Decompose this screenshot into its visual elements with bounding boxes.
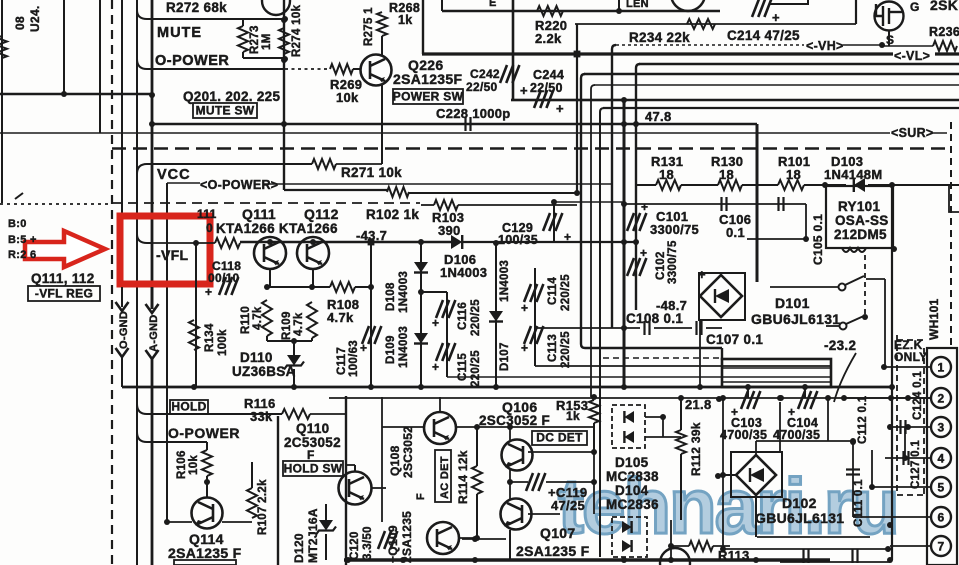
node x285/y59 — [282, 56, 288, 62]
svg-text:+: + — [520, 83, 528, 98]
svg-text:+: + — [205, 285, 212, 299]
node x624/y560 — [621, 557, 627, 563]
diode D106 — [451, 235, 462, 249]
wire vertical x577 R234 — [576, 24, 578, 193]
wire dashed vertical x112 — [111, 0, 113, 565]
wire corner x594/y85 — [591, 85, 595, 397]
wire Q111 down — [269, 269, 271, 287]
node x756/y560 — [753, 557, 759, 563]
node x496/y387 — [493, 384, 499, 390]
node x828/y398 — [825, 395, 831, 401]
wire dotted y203 — [0, 203, 110, 205]
resistor R269 — [330, 64, 353, 74]
svg-text:10k: 10k — [336, 90, 359, 105]
svg-text:D108: D108 — [385, 282, 397, 311]
capacitor bottom right b — [853, 549, 858, 563]
node x780/y398 — [777, 395, 783, 401]
node x577/y193 — [574, 190, 580, 196]
wire horizontal y124 main — [152, 123, 757, 126]
wire Q106 base right — [528, 451, 594, 453]
node x663/y417 — [660, 414, 666, 420]
svg-text:2SK: 2SK — [930, 0, 958, 13]
svg-text:22/50: 22/50 — [466, 80, 498, 94]
label POWER SW box — [393, 89, 463, 104]
bus line y64 — [639, 63, 959, 65]
wire y382 — [722, 381, 831, 383]
svg-text:Q111, 112: Q111, 112 — [31, 271, 95, 286]
wire y562 — [780, 561, 890, 563]
svg-text:C117: C117 — [336, 347, 348, 375]
svg-text:D104: D104 — [615, 483, 649, 498]
node Q112 emitter/bus — [310, 239, 316, 245]
wire vertical x100 — [99, 0, 101, 133]
diode D109b — [414, 333, 428, 344]
A-GND chevron upper — [146, 304, 159, 313]
svg-text:C116: C116 — [457, 302, 469, 330]
wire Q226 emitter up — [381, 36, 383, 56]
svg-text:-VFL: -VFL — [156, 247, 188, 263]
wire x671 vertical — [670, 520, 672, 560]
diode D105a — [624, 411, 634, 423]
svg-text:D102: D102 — [782, 495, 817, 511]
node x892/y387 — [889, 384, 895, 390]
dashed box EZ.K right — [923, 348, 925, 494]
svg-text:10k: 10k — [188, 455, 200, 475]
bus y377 line — [447, 376, 831, 378]
wire Q108 collector up — [439, 397, 441, 412]
node x577/y54 square — [574, 51, 581, 58]
wire (-VH) dotted line y45 — [616, 44, 804, 46]
wire Q106-Q107 vertical — [509, 470, 511, 499]
svg-text:R274 10k: R274 10k — [291, 4, 303, 57]
node x723/y398 — [720, 395, 726, 401]
svg-text:C102: C102 — [655, 251, 667, 280]
wire vertical x757 thick — [756, 124, 759, 282]
wire x207 down — [206, 442, 208, 450]
box bridge D101 — [699, 273, 745, 320]
wire left edge — [1, 0, 3, 203]
wire C119 branch — [510, 481, 528, 483]
wire x447 caps chain — [446, 292, 448, 377]
node x594/y452 — [591, 449, 597, 455]
wire R234 line y24 — [575, 23, 856, 25]
wire C103 verticals — [747, 387, 749, 398]
wire x885 vertical — [884, 279, 886, 368]
svg-text:+: + — [432, 360, 439, 374]
capacitor C103 — [741, 391, 760, 409]
svg-text:F: F — [415, 493, 427, 500]
transistor Q109 — [427, 522, 459, 554]
wire y185 relay row — [636, 184, 656, 186]
svg-text:+: + — [521, 341, 528, 355]
box C103/C104 inner line — [722, 367, 831, 369]
wire y100 left segment — [511, 99, 624, 101]
wire R269 to Q226 base — [353, 68, 361, 70]
resistor R273 vertical — [238, 26, 248, 52]
svg-text:O-GND: O-GND — [118, 311, 130, 349]
node x853/y441 — [850, 438, 856, 444]
svg-text:D107: D107 — [499, 342, 511, 371]
wire right edge corner — [949, 186, 959, 212]
svg-text:U24.: U24. — [28, 5, 42, 32]
node x64/y94 — [61, 91, 67, 97]
node x882/y45 — [879, 42, 885, 48]
zener D120 — [319, 520, 333, 531]
svg-text:0.1: 0.1 — [726, 225, 745, 240]
svg-text:POWER SW: POWER SW — [393, 90, 464, 104]
wire y287 R108 row — [267, 286, 330, 288]
capacitor C118 — [219, 277, 238, 295]
node x284/y124 — [281, 121, 287, 127]
wire vertical x122 (O-GND branch) — [121, 0, 123, 305]
wire R269 curve — [137, 59, 285, 69]
wire R271 right — [336, 163, 382, 165]
wire y19 with curve — [137, 10, 285, 19]
svg-text:C244: C244 — [533, 68, 564, 82]
label MUTE SW box — [193, 103, 257, 118]
svg-text:08: 08 — [13, 16, 27, 30]
node x624/y328 — [621, 325, 627, 331]
svg-text:+: + — [640, 246, 647, 260]
wire x723 vertical — [722, 398, 724, 549]
svg-text:2SA1235: 2SA1235 — [400, 511, 414, 563]
box D105 dashed — [612, 405, 645, 448]
wire vertical x196 C118 — [195, 243, 197, 387]
capacitor on y204 line — [779, 197, 784, 211]
wire R108 right — [355, 286, 371, 288]
bridge rectifier D102 — [736, 455, 776, 495]
svg-text:C114: C114 — [547, 277, 559, 305]
wire vertical x64 — [63, 0, 65, 94]
svg-text:MUTE: MUTE — [157, 25, 202, 41]
node x748/y387 — [745, 384, 751, 390]
wire R273/R274 join y58 — [243, 57, 285, 59]
node x825/y185 — [822, 182, 828, 188]
capacitor C117 — [362, 326, 381, 344]
node x284/y60 — [281, 57, 287, 63]
diagonal tick left box — [15, 193, 23, 199]
node x719/y399 — [716, 396, 722, 402]
node x853/y442 — [850, 439, 856, 445]
node x723/y476 — [720, 472, 726, 478]
transistor Q112 — [297, 237, 329, 269]
svg-text:R109: R109 — [281, 311, 293, 340]
node x890/y427 — [887, 424, 893, 430]
svg-text:22/50: 22/50 — [530, 81, 563, 95]
wire Q112 down — [312, 269, 314, 287]
svg-text:18: 18 — [786, 167, 801, 182]
node x908/y427 — [905, 424, 911, 430]
node x294/y387 — [291, 384, 297, 390]
box C103/C104 outer — [722, 359, 831, 387]
svg-text:O-POWER: O-POWER — [155, 53, 229, 69]
node x781/y398 — [778, 395, 784, 401]
wire R273 stubs — [242, 19, 244, 26]
wire D102 bottom — [755, 495, 757, 537]
svg-text:R102 1k: R102 1k — [366, 207, 419, 222]
wire horizontal y133 long — [0, 132, 947, 134]
svg-text:1k: 1k — [398, 13, 413, 27]
svg-text:5: 5 — [938, 481, 945, 495]
node x594/y482 — [591, 479, 597, 485]
node x510/y427 — [507, 424, 513, 430]
resistor R271 — [312, 159, 336, 169]
node x510/y482 — [507, 479, 513, 485]
wire (-VH) to S — [843, 44, 882, 46]
wire y539 — [462, 538, 506, 540]
wire Q226 collector down — [381, 84, 383, 164]
svg-text:HOLD: HOLD — [171, 400, 206, 414]
svg-text:4.7k: 4.7k — [293, 312, 305, 336]
wire C129 vertical — [553, 202, 555, 242]
connector pin 6 — [931, 507, 951, 527]
svg-text:C127 0.1: C127 0.1 — [910, 440, 922, 489]
resistor R236 zigzag — [933, 41, 957, 51]
node x700/y387 — [697, 384, 703, 390]
svg-text:VCC: VCC — [157, 167, 191, 183]
wire R116 right — [310, 413, 346, 415]
svg-text:A-GND: A-GND — [148, 314, 160, 352]
svg-text:4700/35: 4700/35 — [720, 428, 767, 442]
bus dashed y358 — [603, 357, 722, 359]
wire corner x603/y108 — [600, 108, 604, 557]
svg-text:C105 0.1: C105 0.1 — [811, 214, 825, 265]
resistor left edge — [0, 36, 7, 58]
wire pin7 — [890, 545, 931, 547]
transistor Q111 — [254, 237, 286, 269]
wire O-POWER lower curve — [137, 432, 207, 442]
wire corner x612/y45 — [612, 45, 616, 328]
connector pin 7 — [931, 536, 951, 556]
wire vertical x137 — [136, 0, 138, 565]
wire vertical x856 box edge — [855, 0, 857, 24]
wire vertical x513 — [512, 0, 515, 100]
node x152/y95 — [149, 92, 155, 98]
wire vertical x284 — [283, 0, 285, 190]
wire x663 vertical — [662, 417, 664, 437]
box D104 dashed — [612, 517, 647, 557]
label -VFL REG box — [28, 286, 100, 301]
resistor R275 vertical — [377, 12, 387, 36]
svg-text:1N4003: 1N4003 — [398, 326, 410, 368]
resistor R112 vertical — [676, 430, 686, 454]
O-GND chevron upper — [116, 302, 129, 311]
svg-text:100/63: 100/63 — [348, 340, 360, 377]
svg-text:MT2J16A: MT2J16A — [306, 508, 320, 563]
relay coil — [842, 248, 866, 252]
diode D109a — [414, 262, 428, 273]
wire Q107 base right — [528, 513, 560, 515]
wire R153 down — [593, 423, 595, 452]
node x371/y387 — [368, 384, 374, 390]
capacitor C101 — [627, 213, 646, 231]
diode D105b — [624, 431, 634, 443]
node x806/y239 — [803, 236, 809, 242]
wire R107 up — [251, 462, 253, 488]
resistor R274 vertical — [279, 28, 289, 54]
svg-text:R275 1: R275 1 — [363, 7, 375, 46]
resistor R113 — [689, 541, 713, 551]
svg-text:R114 12k: R114 12k — [456, 450, 470, 504]
wire dashed y148 — [112, 147, 947, 149]
svg-text:<-VL>: <-VL> — [894, 49, 930, 63]
svg-text:KTA1266 KTA1266: KTA1266 KTA1266 — [216, 221, 338, 236]
diode D104b — [622, 540, 632, 552]
wire C117 vertical — [370, 287, 372, 387]
svg-text:2: 2 — [938, 392, 945, 406]
bus line y108 — [603, 107, 959, 109]
dashed box EZ.K left — [896, 335, 898, 494]
node x285/y19 — [282, 16, 288, 22]
wire corner x639/y64 — [636, 64, 640, 310]
capacitor C113 — [524, 326, 543, 344]
wire C119 right — [546, 481, 594, 483]
wire y398 long — [329, 397, 930, 399]
resistor R114 vertical — [472, 466, 482, 494]
box bridge D102 — [731, 452, 782, 497]
wire x594 vertical — [593, 452, 595, 514]
svg-text:<O-POWER>: <O-POWER> — [200, 178, 278, 192]
capacitor bottom right a — [804, 549, 809, 563]
node x908/y398 — [905, 395, 911, 401]
svg-text:R:2 6: R:2 6 — [8, 249, 36, 261]
dashed box EZ.K bottom — [897, 494, 924, 496]
capacitor C116 — [436, 300, 455, 318]
svg-text:ONLY: ONLY — [894, 350, 927, 364]
svg-text:GBU6JL6131: GBU6JL6131 — [755, 510, 844, 526]
resistor R106 vertical — [202, 450, 212, 476]
wire A-GND stub upper — [151, 287, 154, 309]
svg-text:C214 47/25: C214 47/25 — [727, 28, 800, 43]
node x894/y249 — [891, 246, 897, 252]
svg-text:C124 0.1: C124 0.1 — [912, 371, 924, 420]
svg-text:F: F — [307, 448, 315, 462]
transistor Q108 — [424, 412, 456, 444]
svg-text:AC DET: AC DET — [439, 456, 451, 499]
red box highlight — [120, 216, 210, 284]
wire box top right — [769, 0, 808, 4]
svg-text:1N4003: 1N4003 — [499, 260, 511, 302]
node x207/y482 — [204, 479, 210, 485]
wire x371 upper — [370, 242, 372, 287]
node x718/y476 — [715, 473, 721, 479]
svg-text:3300/75: 3300/75 — [667, 240, 679, 284]
svg-text:2.2k: 2.2k — [535, 31, 562, 46]
svg-text:MC2838: MC2838 — [606, 469, 659, 484]
svg-text:MC2836: MC2836 — [606, 497, 659, 512]
svg-text:R271 10k: R271 10k — [341, 165, 402, 180]
svg-text:47.8: 47.8 — [645, 109, 672, 124]
wire y46 stub — [882, 45, 933, 47]
connector pin 3 — [931, 417, 951, 437]
svg-text:E: E — [489, 0, 497, 9]
wire pin4 — [885, 457, 931, 459]
wire pin5 — [872, 486, 931, 488]
resistor R109 vertical — [307, 302, 317, 338]
wire contact2 left — [826, 325, 839, 327]
node x624/y242 — [621, 239, 627, 245]
relay RY101 box — [826, 186, 893, 248]
svg-text:GBU6JL6131: GBU6JL6131 — [751, 311, 840, 327]
label HOLD SW box — [283, 461, 343, 476]
svg-text:111: 111 — [197, 207, 217, 221]
wire x905 vertical — [904, 427, 906, 458]
wire HOLD curve — [137, 404, 282, 414]
node x348/y560 — [345, 557, 351, 563]
svg-text:+: + — [360, 341, 367, 355]
svg-text:18: 18 — [719, 167, 734, 182]
wire D106 right — [462, 241, 496, 243]
svg-text:WH101: WH101 — [927, 298, 941, 340]
capacitor on pin4 line — [904, 451, 909, 465]
wire contact1 to x885 — [866, 278, 885, 280]
svg-text:C108 0.1: C108 0.1 — [626, 311, 683, 326]
svg-text:2SC3052: 2SC3052 — [401, 426, 415, 478]
bridge rectifier D101 — [700, 275, 742, 317]
svg-text:R236: R236 — [929, 25, 959, 39]
wire x872 vertical — [871, 450, 873, 487]
wire D101 box to ground — [699, 320, 701, 387]
wire x535 vertical — [534, 268, 536, 366]
node x892/y185 — [889, 182, 895, 188]
node x312/y287 — [309, 284, 315, 290]
svg-text:Q110: Q110 — [296, 421, 329, 436]
wire vertical x442 — [441, 0, 443, 11]
wire C108-C107 — [654, 327, 692, 329]
svg-text:220/25: 220/25 — [560, 331, 572, 368]
wire Q110 up — [354, 465, 356, 472]
wire x806 corner — [805, 204, 807, 239]
svg-text:UZ36BSA: UZ36BSA — [232, 364, 296, 379]
svg-text:2SA1235 F: 2SA1235 F — [168, 545, 242, 561]
svg-text:1M: 1M — [261, 33, 273, 50]
svg-text:220/25: 220/25 — [560, 274, 572, 311]
svg-text:B:5 +: B:5 + — [8, 234, 37, 246]
capacitor C2xx top right — [752, 0, 771, 17]
svg-text:3: 3 — [938, 421, 945, 435]
svg-text:HOLD SW: HOLD SW — [284, 462, 343, 476]
transistor Q114 — [192, 498, 223, 529]
O-GND chevron lower — [116, 348, 129, 357]
svg-text:47/25: 47/25 — [551, 498, 585, 513]
svg-text:Q111: Q111 — [242, 206, 276, 222]
svg-text:-VFL REG: -VFL REG — [35, 287, 93, 301]
wire dashed relay armature — [864, 255, 866, 317]
label Q114 box bottom — [174, 560, 236, 565]
relay contact 1 — [839, 284, 846, 291]
svg-text:3.3/50: 3.3/50 — [362, 526, 374, 560]
svg-text:33k: 33k — [250, 409, 273, 424]
node x267/y287 — [264, 284, 270, 290]
wire R113 line — [671, 545, 689, 547]
svg-text:220/25: 220/25 — [470, 299, 482, 336]
svg-text:R273: R273 — [249, 25, 261, 54]
node x805/y387 — [802, 384, 808, 390]
connector box — [927, 348, 957, 565]
capacitor C115 — [436, 343, 455, 361]
svg-text:D110: D110 — [240, 350, 273, 365]
svg-text:C228 1000p: C228 1000p — [436, 106, 511, 121]
wire D105 right y417 — [645, 416, 663, 418]
svg-text:100/35: 100/35 — [498, 233, 538, 247]
wire horizontal y94 — [0, 93, 152, 95]
red arrow highlight — [25, 231, 105, 267]
node x636/y242 — [633, 239, 639, 245]
svg-text:18: 18 — [659, 167, 674, 182]
svg-text:2SC3052 F: 2SC3052 F — [479, 413, 550, 428]
resistor R234 — [687, 19, 715, 29]
capacitor C114 — [524, 284, 543, 302]
